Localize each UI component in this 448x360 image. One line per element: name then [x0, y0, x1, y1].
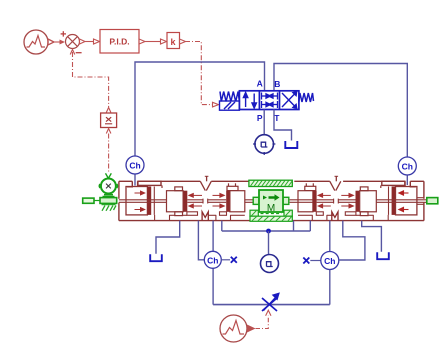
wire node to gauge	[268, 231, 270, 255]
mass load hatched top bar	[249, 180, 293, 186]
tank (valve return)	[285, 141, 297, 148]
wire P port to pressure source	[263, 110, 265, 135]
spool rod left	[119, 199, 253, 204]
port chamber box left	[162, 185, 183, 215]
position sensor arrow (green)	[106, 173, 112, 178]
manifold top tab right	[305, 183, 316, 190]
manifold bottom inner edge left	[155, 212, 245, 221]
feedback transducer box x	[101, 113, 117, 128]
valve right cell arrows (crossed)	[282, 92, 297, 108]
spool land L1	[147, 187, 151, 215]
minus sign	[76, 52, 82, 54]
P.I.D. controller block	[100, 30, 139, 54]
wire valve port B loop (right)	[274, 64, 407, 158]
wire left Ch to manifold	[134, 174, 136, 186]
wire transducer to sensor (dash-dot)	[106, 129, 111, 174]
chamber wall right of L3	[230, 191, 245, 212]
spool rod right	[290, 199, 356, 204]
manifold right end-cap chamber	[396, 187, 417, 215]
port chamber box right	[360, 185, 381, 215]
pressure gauge circle a (bottom)	[261, 255, 279, 273]
sensor ground hatch	[102, 205, 117, 211]
svg-text:Ch: Ch	[402, 162, 413, 172]
svg-text:T: T	[274, 113, 280, 123]
sensor slider block	[83, 198, 94, 203]
left cap arrows	[135, 191, 145, 211]
manifold right half: chamber right of R3	[298, 191, 313, 212]
wire SG1 to summer	[55, 40, 66, 45]
svg-text:A: A	[257, 79, 263, 89]
manifold top funnel port left	[200, 176, 211, 190]
bus junction node	[266, 229, 271, 234]
svg-text:P.I.D.: P.I.D.	[109, 37, 129, 47]
right cap arrows	[399, 191, 409, 212]
wire T port to tank	[274, 110, 292, 141]
valve centre cell (closed, metered)	[262, 93, 278, 109]
wire port p5 to bus	[293, 221, 295, 231]
wire port p1 to tank	[156, 221, 180, 254]
manifold top tab left	[227, 183, 238, 190]
svg-text:Ch: Ch	[129, 161, 140, 171]
pressure bus	[222, 230, 310, 232]
sleeve wall right	[388, 187, 390, 215]
manifold top funnel port right	[330, 176, 341, 190]
signal generator SG2 (bottom)	[220, 315, 256, 342]
left-mid chamber arrows	[189, 194, 224, 208]
wire k to valve solenoid (dash-dot)	[180, 39, 219, 107]
valve proportional solenoid	[220, 101, 240, 110]
valve left spring	[220, 92, 239, 102]
wire port p3 through Ch to rail	[212, 221, 214, 305]
proportional valve V1 body	[239, 91, 299, 110]
spool land R3	[313, 191, 317, 212]
wire port p9 to tank	[362, 221, 382, 252]
spool rod right end	[376, 198, 427, 205]
flow meter Ch (top left)	[126, 156, 144, 174]
spool land R1	[392, 187, 396, 215]
tank T2	[377, 252, 389, 259]
manifold housing outer shell	[119, 181, 424, 220]
manifold left end-cap chamber	[126, 187, 147, 215]
variable flow restrictor	[262, 294, 279, 311]
position sensor transducer circle	[99, 179, 117, 194]
wire port p4 to bus	[221, 221, 223, 231]
plus sign	[61, 31, 66, 36]
spool land L2	[184, 191, 188, 212]
pressure source circle a (supply)	[253, 135, 275, 155]
sensor rod	[94, 200, 100, 202]
flow meter Ch (bottom right)	[321, 252, 339, 270]
signal generator SG1	[24, 30, 54, 54]
sensor body	[100, 198, 117, 204]
wire valve port A loop (left)	[135, 62, 265, 156]
wire port p6 to bus	[309, 221, 311, 231]
spool end block (green)	[427, 198, 438, 204]
manifold bottom inner edge right	[298, 212, 388, 221]
wire port p8 jog to right Ch	[339, 221, 365, 260]
spool land R2	[356, 191, 360, 212]
mass support hatched base	[250, 210, 292, 221]
wire SG2 to restrictor (dash-dot)	[256, 310, 272, 328]
x marker right	[303, 258, 309, 264]
x marker left	[221, 259, 230, 261]
flow meter Ch (top right)	[398, 157, 416, 175]
feedback wire summer input (dash-dot)	[70, 50, 111, 113]
tank T1	[150, 254, 162, 261]
wire port p7 through right Ch to rail	[329, 221, 331, 305]
valve left cell arrows (parallel)	[243, 93, 256, 109]
svg-text:B: B	[274, 79, 280, 89]
spool land L3	[226, 191, 230, 212]
svg-text:P: P	[257, 113, 263, 123]
gain block k	[167, 33, 180, 49]
bottom rail	[213, 304, 330, 306]
right-mid chamber arrows	[318, 194, 353, 208]
wire PID to k	[139, 39, 167, 44]
svg-text:M: M	[267, 203, 275, 214]
svg-text:Ch: Ch	[207, 255, 218, 265]
svg-text:Ch: Ch	[324, 256, 335, 266]
sensor stand	[103, 195, 115, 197]
wire right Ch to manifold	[406, 175, 408, 185]
flow meter Ch (bottom left)	[204, 251, 221, 268]
valve right spring	[299, 93, 314, 102]
wire port p2 to left Ch	[198, 221, 204, 260]
summing junction	[66, 35, 80, 49]
sleeve wall	[153, 187, 155, 215]
wire summer to PID	[80, 39, 100, 44]
motor mass M box	[253, 190, 289, 214]
